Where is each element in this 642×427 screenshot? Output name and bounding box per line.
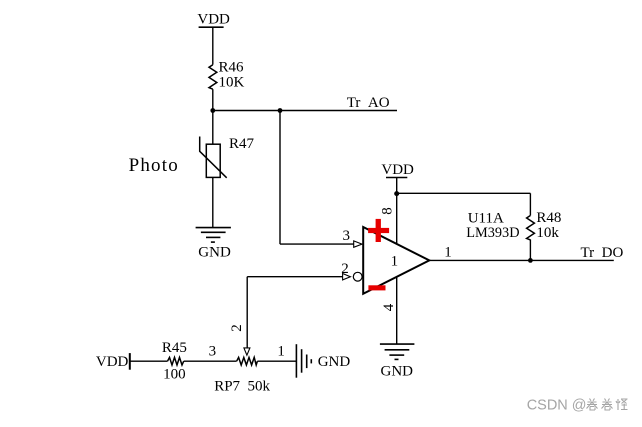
- wire pin 8: [396, 178, 398, 245]
- svg-text:VDD: VDD: [197, 12, 230, 28]
- svg-text:R46: R46: [219, 60, 245, 76]
- svg-text:R48: R48: [536, 210, 561, 226]
- svg-text:1: 1: [391, 253, 399, 269]
- svg-text:R47: R47: [229, 136, 255, 152]
- svg-text:Photo: Photo: [129, 155, 179, 176]
- svg-text:R45: R45: [162, 340, 187, 356]
- power port VDD (above U1): [381, 162, 414, 178]
- wire VDD to R45: [130, 360, 168, 362]
- svg-text:LM393D: LM393D: [466, 225, 519, 241]
- wire to pin 2: [247, 276, 342, 278]
- wire R48 top lead: [529, 193, 531, 215]
- svg-text:U11A: U11A: [468, 210, 504, 226]
- svg-text:8: 8: [380, 207, 396, 215]
- svg-text:1: 1: [277, 343, 285, 359]
- svg-text:VDD: VDD: [381, 162, 414, 178]
- watermark char guai: [616, 399, 628, 410]
- wire pin2 down to wiper: [246, 277, 248, 348]
- pin 3 arrow: [354, 241, 362, 247]
- ground (right of RP7, sideways): [296, 344, 311, 378]
- RP7 wiper arrow: [244, 348, 250, 355]
- svg-text:2: 2: [229, 324, 245, 332]
- svg-text:GND: GND: [381, 364, 414, 380]
- wire R48 bottom lead: [529, 240, 531, 261]
- junction node at pin3 tap: [278, 108, 283, 113]
- resistor R45: [168, 357, 184, 365]
- wire R45 to RP7: [184, 360, 237, 362]
- svg-text:1: 1: [444, 245, 452, 261]
- svg-text:10k: 10k: [536, 225, 559, 241]
- svg-text:Tr DO: Tr DO: [581, 245, 624, 261]
- svg-text:10K: 10K: [219, 75, 245, 91]
- watermark char juan1: [587, 399, 598, 411]
- wire node to Tr_AO: [213, 110, 397, 112]
- svg-text:RP7 50k: RP7 50k: [214, 379, 270, 395]
- wire pin 4: [396, 277, 398, 345]
- wire node to R48: [397, 192, 531, 194]
- resistor R48: [527, 216, 535, 240]
- svg-text:3: 3: [343, 228, 351, 244]
- svg-text:VDD: VDD: [96, 354, 129, 370]
- photoresistor R47: [200, 137, 227, 178]
- wire VDD to R46: [212, 27, 214, 64]
- power port VDD (bottom left): [96, 353, 130, 370]
- junction node at R46/R47: [210, 108, 215, 113]
- pin 2 arrow: [343, 274, 351, 280]
- svg-text:100: 100: [163, 366, 186, 382]
- junction node R48/output: [528, 258, 533, 263]
- wire to pin 3: [280, 243, 354, 245]
- svg-text:3: 3: [209, 344, 217, 360]
- svg-text:2: 2: [341, 261, 349, 277]
- resistor R46: [209, 65, 217, 90]
- wire output to Tr_DO: [429, 259, 614, 261]
- svg-text:GND: GND: [318, 354, 351, 370]
- pin 2 bubble: [353, 272, 362, 281]
- watermark char juan2: [602, 399, 613, 411]
- ground (below R47): [196, 228, 231, 243]
- wire R47 to GND: [212, 177, 214, 227]
- red plus mark (noninverting input): [368, 219, 389, 242]
- svg-text:4: 4: [381, 303, 397, 311]
- svg-text:CSDN @: CSDN @: [527, 398, 587, 414]
- power port VDD (top): [197, 12, 230, 28]
- wire RP7 to GND: [257, 360, 296, 362]
- ground (below U1): [380, 344, 415, 359]
- red minus mark (inverting input): [368, 285, 385, 290]
- watermark CSDN: [527, 398, 628, 414]
- op-amp U1 comparator triangle: [363, 227, 429, 294]
- wire R46 to node: [212, 89, 214, 110]
- wire pin3 tap down: [279, 111, 281, 245]
- svg-text:Tr AO: Tr AO: [347, 95, 390, 111]
- potentiometer RP7: [237, 357, 258, 365]
- svg-text:GND: GND: [198, 245, 231, 261]
- wire node to R47: [212, 111, 214, 145]
- junction node pin8/R48: [394, 191, 399, 196]
